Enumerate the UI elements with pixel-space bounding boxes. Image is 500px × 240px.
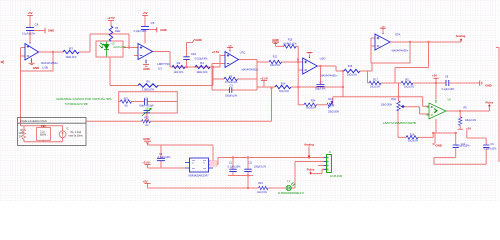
svg-text:+2.5V: +2.5V: [260, 76, 268, 80]
svg-text:C5: C5: [151, 21, 155, 25]
svg-text:R24: R24: [311, 99, 316, 102]
svg-text:R2: R2: [177, 61, 181, 65]
svg-text:+5V: +5V: [142, 11, 147, 15]
svg-text:600%: 600%: [40, 134, 47, 137]
svg-text:0.015µF,6%: 0.015µF,6%: [195, 57, 209, 60]
svg-text:10kΩ,±1%: 10kΩ,±1%: [196, 71, 208, 74]
svg-text:1kΩ,±1%: 1kΩ,±1%: [408, 140, 419, 143]
svg-text:1kΩ,±1%: 1kΩ,±1%: [257, 191, 268, 194]
svg-text:U7C: U7C: [240, 50, 246, 54]
svg-text:R17: R17: [373, 78, 378, 81]
svg-text:R11: R11: [405, 78, 410, 81]
svg-text:R16: R16: [348, 65, 353, 68]
svg-text:Analog: Analog: [304, 142, 314, 146]
svg-text:+5V: +5V: [432, 74, 437, 78]
svg-text:GND: GND: [485, 83, 491, 87]
svg-text:0.1µF,±10%: 0.1µF,±10%: [134, 30, 148, 33]
svg-text:0.1µF,±10%: 0.1µF,±10%: [22, 32, 36, 35]
svg-text:MAX4474ASD+: MAX4474ASD+: [321, 74, 338, 77]
svg-text:Pulse: Pulse: [486, 101, 494, 105]
svg-text:R12: R12: [273, 56, 278, 59]
svg-text:10kΩ,±1%: 10kΩ,±1%: [465, 119, 477, 122]
svg-text:1kΩ,±1%: 1kΩ,±1%: [279, 90, 290, 93]
svg-text:100µF,6.3V: 100µF,6.3V: [254, 165, 267, 168]
svg-text:EXX: EXX: [41, 125, 46, 128]
svg-text:C4: C4: [35, 22, 39, 26]
svg-text:R21: R21: [124, 97, 129, 100]
svg-text:R3: R3: [69, 47, 73, 51]
svg-text:22-28-4040: 22-28-4040: [330, 175, 343, 178]
svg-text:MAX4474ASD+: MAX4474ASD+: [392, 50, 409, 53]
svg-text:100Ω,±1%: 100Ω,±1%: [65, 56, 77, 59]
svg-text:R23: R23: [258, 182, 263, 185]
svg-text:U1B: U1B: [42, 65, 48, 69]
svg-text:5Ω: 5Ω: [124, 104, 127, 107]
svg-text:470kΩ,±1%: 470kΩ,±1%: [225, 81, 238, 84]
svg-text:GND: GND: [435, 144, 441, 148]
svg-text:2.2MΩ,67%: 2.2MΩ,67%: [142, 89, 155, 92]
svg-text:0.1µF,±10%: 0.1µF,±10%: [484, 148, 498, 151]
svg-text:+2.5V: +2.5V: [142, 160, 150, 164]
svg-text:1kΩ,±1%: 1kΩ,±1%: [347, 73, 358, 76]
svg-text:GND: GND: [143, 67, 149, 71]
svg-text:GND: GND: [143, 137, 149, 141]
svg-text:6.04kΩ,±1%: 6.04kΩ,±1%: [283, 43, 297, 46]
svg-text:LMV7219M5X/NOPB: LMV7219M5X/NOPB: [383, 122, 417, 125]
svg-text:10kΩ 50%: 10kΩ 50%: [328, 110, 340, 113]
svg-text:ADR3425ARJZ-R7: ADR3425ARJZ-R7: [188, 174, 209, 177]
svg-text:+5V: +5V: [142, 179, 147, 183]
svg-text:1kΩ,±1%: 1kΩ,±1%: [270, 64, 281, 67]
svg-text:VARIABLE CAPACITOR VIRTUAL 9PL: VARIABLE CAPACITOR VIRTUAL 9PL: [56, 98, 113, 101]
svg-text:GND: GND: [48, 28, 54, 32]
svg-text:Diode emulation block: Diode emulation block: [21, 119, 48, 123]
svg-text:1kΩ,±1%: 1kΩ,±1%: [404, 86, 415, 89]
svg-text:R15: R15: [288, 39, 293, 42]
svg-text:+5V: +5V: [466, 126, 471, 130]
svg-text:+5V: +5V: [27, 11, 32, 15]
svg-text:10kΩ: 10kΩ: [115, 30, 121, 33]
svg-text:0.1µF,±10%: 0.1µF,±10%: [442, 88, 456, 91]
svg-text:U7A: U7A: [395, 32, 401, 36]
svg-text:U3: U3: [158, 66, 162, 70]
svg-text:6,80000000E1V: 6,80000000E1V: [278, 192, 305, 195]
svg-text:Analog: Analog: [456, 34, 466, 38]
svg-text:1Ω: 1Ω: [145, 124, 148, 127]
svg-text:1kΩ,±1%: 1kΩ,±1%: [306, 106, 317, 109]
svg-text:R19: R19: [410, 133, 415, 136]
svg-text:C10: C10: [191, 52, 197, 56]
svg-text:R18: R18: [391, 98, 396, 101]
svg-text:ALCO-4702: ALCO-4702: [113, 46, 126, 49]
svg-text:R4: R4: [200, 61, 204, 65]
svg-text:U1D: U1D: [320, 56, 326, 60]
svg-text:1kΩ,±1%: 1kΩ,±1%: [174, 71, 185, 74]
svg-text:GND: GND: [33, 66, 39, 70]
svg-text:100pF,±2%: 100pF,±2%: [225, 94, 238, 97]
svg-text:100µF,6%: 100µF,6%: [315, 88, 327, 91]
svg-text:10kΩ 50%: 10kΩ 50%: [381, 103, 393, 106]
svg-text:Pulse: Pulse: [307, 168, 315, 172]
svg-text:R10: R10: [328, 98, 333, 101]
svg-text:0.1µF,±10%: 0.1µF,±10%: [457, 144, 471, 147]
svg-text:GND: GND: [195, 38, 201, 42]
svg-text:TUTORIALACSYMB: TUTORIALACSYMB: [65, 103, 88, 106]
svg-text:GND: GND: [272, 38, 278, 42]
svg-text:max 5s 20ms: max 5s 20ms: [68, 135, 83, 138]
svg-text:+2.5V: +2.5V: [107, 16, 115, 20]
svg-text:C11: C11: [248, 161, 253, 164]
svg-text:0.1µF,±10%: 0.1µF,±10%: [228, 165, 242, 168]
svg-text:GND: GND: [160, 28, 166, 32]
svg-text:1kΩ,±1%: 1kΩ,±1%: [370, 86, 381, 89]
svg-text:+2.5V: +2.5V: [212, 50, 220, 54]
svg-text:0.1µF,±10%: 0.1µF,±10%: [158, 156, 172, 159]
svg-text:MAX4474ASD+: MAX4474ASD+: [242, 68, 259, 71]
svg-text:R14: R14: [281, 83, 286, 86]
svg-text:R22: R22: [144, 116, 149, 119]
